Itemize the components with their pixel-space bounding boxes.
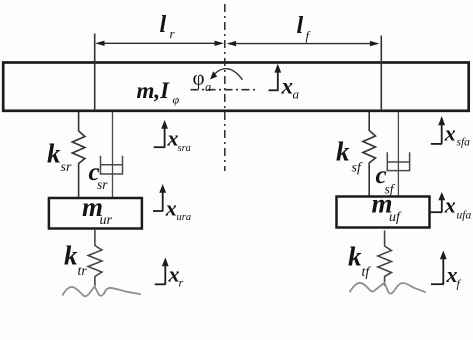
label k_tf (348, 242, 371, 281)
svg-text:tf: tf (362, 265, 372, 280)
label l_f (297, 13, 312, 43)
svg-text:l: l (297, 13, 304, 39)
svg-text:φ: φ (193, 66, 205, 90)
damper c_sf (387, 112, 409, 197)
svg-text:a: a (293, 87, 300, 102)
unsprung mass m_uf (337, 197, 430, 228)
phi rotation arc arrow (210, 69, 243, 80)
marker x_a (269, 64, 300, 102)
spring k_tr (tyre rear) (88, 230, 102, 288)
label k_tr (64, 241, 87, 280)
unsprung mass m_ur (49, 198, 142, 229)
centerline (dash-dot vertical axis) (224, 4, 226, 171)
label m_ur (82, 192, 113, 228)
damper c_sr (101, 112, 123, 197)
pitch axis horizontal dash-dot (191, 89, 259, 91)
spring k_sr (72, 112, 85, 197)
svg-text:sra: sra (178, 143, 191, 154)
svg-text:sfa: sfa (457, 136, 471, 148)
marker x_ura (153, 184, 191, 223)
svg-text:ura: ura (177, 212, 192, 223)
label l_r (160, 12, 176, 41)
label k_sr (47, 139, 72, 176)
svg-text:sr: sr (97, 177, 108, 192)
svg-text:tr: tr (78, 264, 88, 279)
svg-text:ur: ur (100, 213, 113, 228)
label phi_a (193, 66, 212, 95)
svg-text:a: a (205, 80, 211, 94)
label k_sf (336, 137, 363, 176)
svg-text:k: k (336, 137, 350, 167)
marker x_sra (154, 120, 191, 154)
label c_sr (89, 159, 109, 192)
svg-text:x: x (165, 196, 177, 221)
svg-text:k: k (64, 241, 78, 271)
svg-text:r: r (179, 276, 184, 290)
svg-text:sr: sr (61, 160, 72, 175)
svg-text:m,I: m,I (137, 78, 171, 103)
svg-text:r: r (170, 26, 176, 41)
ground rear (road squiggle) (63, 286, 141, 296)
svg-text:f: f (457, 277, 462, 291)
svg-text:sf: sf (352, 161, 363, 176)
marker x_ufa (430, 192, 472, 222)
marker x_sfa (431, 116, 470, 148)
dimension tick left (rear axle) (94, 34, 96, 112)
svg-text:l: l (160, 12, 167, 38)
ground front (road squiggle) (350, 283, 426, 294)
svg-text:ufa: ufa (457, 210, 472, 222)
marker x_r (155, 258, 184, 290)
svg-text:φ: φ (173, 93, 180, 107)
dimension l_f arrow line (227, 41, 379, 46)
svg-text:uf: uf (389, 210, 402, 225)
svg-text:x: x (444, 121, 456, 146)
dimension tick right (front axle) (380, 36, 382, 112)
spring k_tf (tyre front) (378, 231, 392, 287)
sprung mass body rectangle m,I_phi (3, 63, 469, 111)
svg-text:x: x (444, 193, 456, 218)
label m,I_phi (137, 78, 180, 107)
label c_sf (376, 162, 396, 197)
marker x_f (431, 251, 462, 291)
svg-text:k: k (47, 139, 61, 169)
spring k_sf (363, 112, 376, 197)
label m_uf (372, 189, 403, 226)
dimension l_r arrow line (95, 41, 224, 46)
svg-text:f: f (306, 28, 312, 43)
svg-text:x: x (281, 74, 294, 99)
svg-text:k: k (348, 242, 362, 272)
